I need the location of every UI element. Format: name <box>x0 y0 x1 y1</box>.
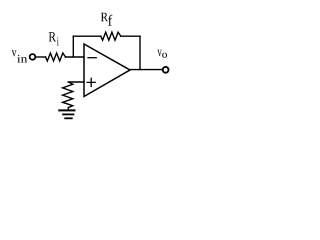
op-amp inverting input minus sign <box>88 57 96 59</box>
wire feedback rail left segment <box>73 35 101 37</box>
input terminal circle <box>30 54 36 60</box>
node vo label <box>157 50 167 58</box>
resistor Ri <box>46 53 66 61</box>
op-amp U1 triangle <box>84 44 130 97</box>
op-amp non-inverting input plus sign <box>87 78 95 86</box>
output terminal circle <box>163 67 169 73</box>
node vin label <box>12 50 27 62</box>
resistor to ground (vertical) <box>63 82 73 108</box>
ground <box>59 110 74 118</box>
wire op-amp output to terminal <box>130 69 162 71</box>
resistor Rf <box>101 32 121 40</box>
wire node A up to feedback rail <box>72 36 74 57</box>
wire feedback rail right segment <box>121 35 140 37</box>
inverting op-amp circuit schematic <box>0 0 181 131</box>
resistor Rf label <box>101 13 112 26</box>
resistor Ri label <box>49 32 59 45</box>
wire resistor to ground symbol <box>67 107 69 109</box>
wire feedback down to output node <box>139 36 141 69</box>
wire input terminal to resistor Ri <box>36 56 46 58</box>
wire Ri to inverting input / node A <box>66 56 85 58</box>
wire non-inverting input to grounding resistor <box>68 81 84 83</box>
